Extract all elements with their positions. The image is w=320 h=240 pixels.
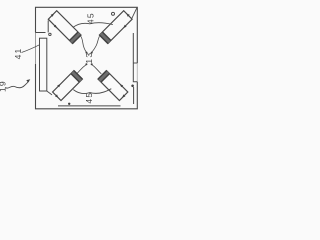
svg-text:41: 41 xyxy=(13,48,23,60)
svg-text:13: 13 xyxy=(84,52,94,64)
svg-text:45: 45 xyxy=(86,12,96,24)
svg-text:19: 19 xyxy=(0,80,8,92)
svg-text:45: 45 xyxy=(84,92,94,104)
